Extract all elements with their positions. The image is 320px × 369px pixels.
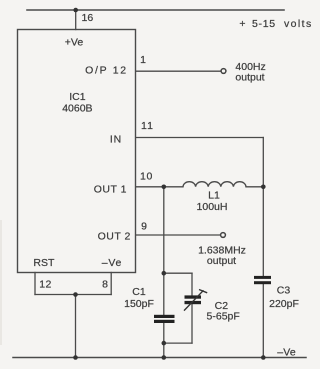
wire: +V rail to IC pin 16 bbox=[75, 10, 77, 30]
capacitor C1 plates bbox=[154, 315, 175, 323]
junction: C1 branch / C2 branch top bbox=[162, 271, 167, 276]
wire: pin 10 (OUT 1) to inductor bbox=[136, 186, 183, 188]
capacitor C2 trimmer arrow bbox=[184, 290, 207, 311]
svg-text:150pF: 150pF bbox=[124, 298, 154, 310]
svg-text:–Ve: –Ve bbox=[277, 347, 296, 359]
svg-text:220pF: 220pF bbox=[269, 298, 299, 310]
capacitor C2 plates (trimmer) bbox=[185, 295, 202, 304]
svg-text:OUT 1: OUT 1 bbox=[94, 184, 127, 196]
svg-text:9: 9 bbox=[141, 221, 147, 233]
svg-text:5-65pF: 5-65pF bbox=[207, 311, 240, 323]
inductor L1 coil bbox=[183, 182, 246, 187]
junction: C3 at 0V rail bbox=[261, 355, 266, 360]
0V (-Ve) supply rail bbox=[13, 357, 306, 359]
junction: RST tie bar bbox=[73, 292, 78, 297]
svg-text:8: 8 bbox=[102, 279, 108, 291]
svg-text:11: 11 bbox=[141, 120, 154, 132]
wire: tie bar down to 0V rail bbox=[75, 295, 77, 358]
junction: C1 branch / C2 branch bottom bbox=[162, 341, 167, 346]
svg-text:+Ve: +Ve bbox=[65, 37, 84, 49]
wire: pin 8 (-Ve) stub bbox=[110, 273, 112, 295]
wire: pin 11 (IN) horizontal bbox=[136, 137, 263, 139]
terminal: 1.638MHz output bbox=[221, 233, 226, 238]
svg-text:RST: RST bbox=[33, 257, 55, 269]
svg-text:IC1: IC1 bbox=[69, 91, 86, 103]
svg-text:O/P 12: O/P 12 bbox=[85, 65, 128, 77]
wire: inductor to right vertical net bbox=[246, 186, 263, 188]
svg-text:–Ve: –Ve bbox=[102, 257, 122, 269]
junction: +V rail / pin 16 bbox=[73, 8, 78, 13]
svg-text:4060B: 4060B bbox=[62, 103, 92, 115]
junction: OUT1 / C1 branch bbox=[162, 185, 167, 190]
svg-text:C3: C3 bbox=[277, 285, 291, 297]
svg-text:16: 16 bbox=[82, 12, 94, 24]
svg-text:OUT 2: OUT 2 bbox=[98, 231, 131, 243]
junction: IC ground at 0V rail bbox=[73, 355, 78, 360]
wire: C3 to 0V rail bbox=[262, 284, 264, 357]
wire: pin 1 (O/P 12) to 400Hz output terminal bbox=[136, 70, 221, 72]
wire: right vertical net (pin 11 down to L1 junction) bbox=[262, 138, 264, 187]
wire: C1 branch vertical from OUT1 junction bbox=[163, 187, 165, 315]
IC IC1 4060B body bbox=[18, 30, 136, 273]
terminal: 400Hz output bbox=[221, 69, 226, 74]
svg-text:10: 10 bbox=[140, 171, 153, 183]
svg-text:1: 1 bbox=[140, 54, 146, 66]
svg-text:IN: IN bbox=[110, 134, 122, 146]
wire: C2 branch top horizontal bbox=[164, 272, 192, 274]
svg-text:output: output bbox=[207, 255, 236, 267]
capacitor C3 plates bbox=[254, 276, 271, 284]
wire: pin 9 (OUT 2) to 1.638MHz output terminal bbox=[136, 234, 221, 236]
+V supply rail bbox=[27, 9, 284, 11]
wire: right vertical net L1 junction down to C3 bbox=[262, 187, 264, 276]
junction: C1 branch at 0V rail bbox=[162, 355, 167, 360]
wire: C1 branch below C1 to 0V rail bbox=[163, 323, 165, 358]
svg-text:L1: L1 bbox=[208, 190, 220, 202]
svg-text:C1: C1 bbox=[132, 286, 146, 298]
svg-text:output: output bbox=[235, 72, 264, 84]
wire: pin 12 (RST) stub bbox=[34, 273, 36, 295]
svg-text:100uH: 100uH bbox=[197, 201, 228, 213]
wire: C2 branch bottom horizontal bbox=[164, 342, 192, 344]
junction: L1 / right vertical net bbox=[261, 185, 266, 190]
wire: C2 branch upper vertical bbox=[191, 273, 193, 295]
page scan edge bbox=[0, 220, 2, 345]
svg-text:12: 12 bbox=[39, 279, 51, 291]
wire: C2 branch lower vertical bbox=[191, 304, 193, 343]
wire: RST/-Ve tie bar bbox=[35, 294, 111, 296]
